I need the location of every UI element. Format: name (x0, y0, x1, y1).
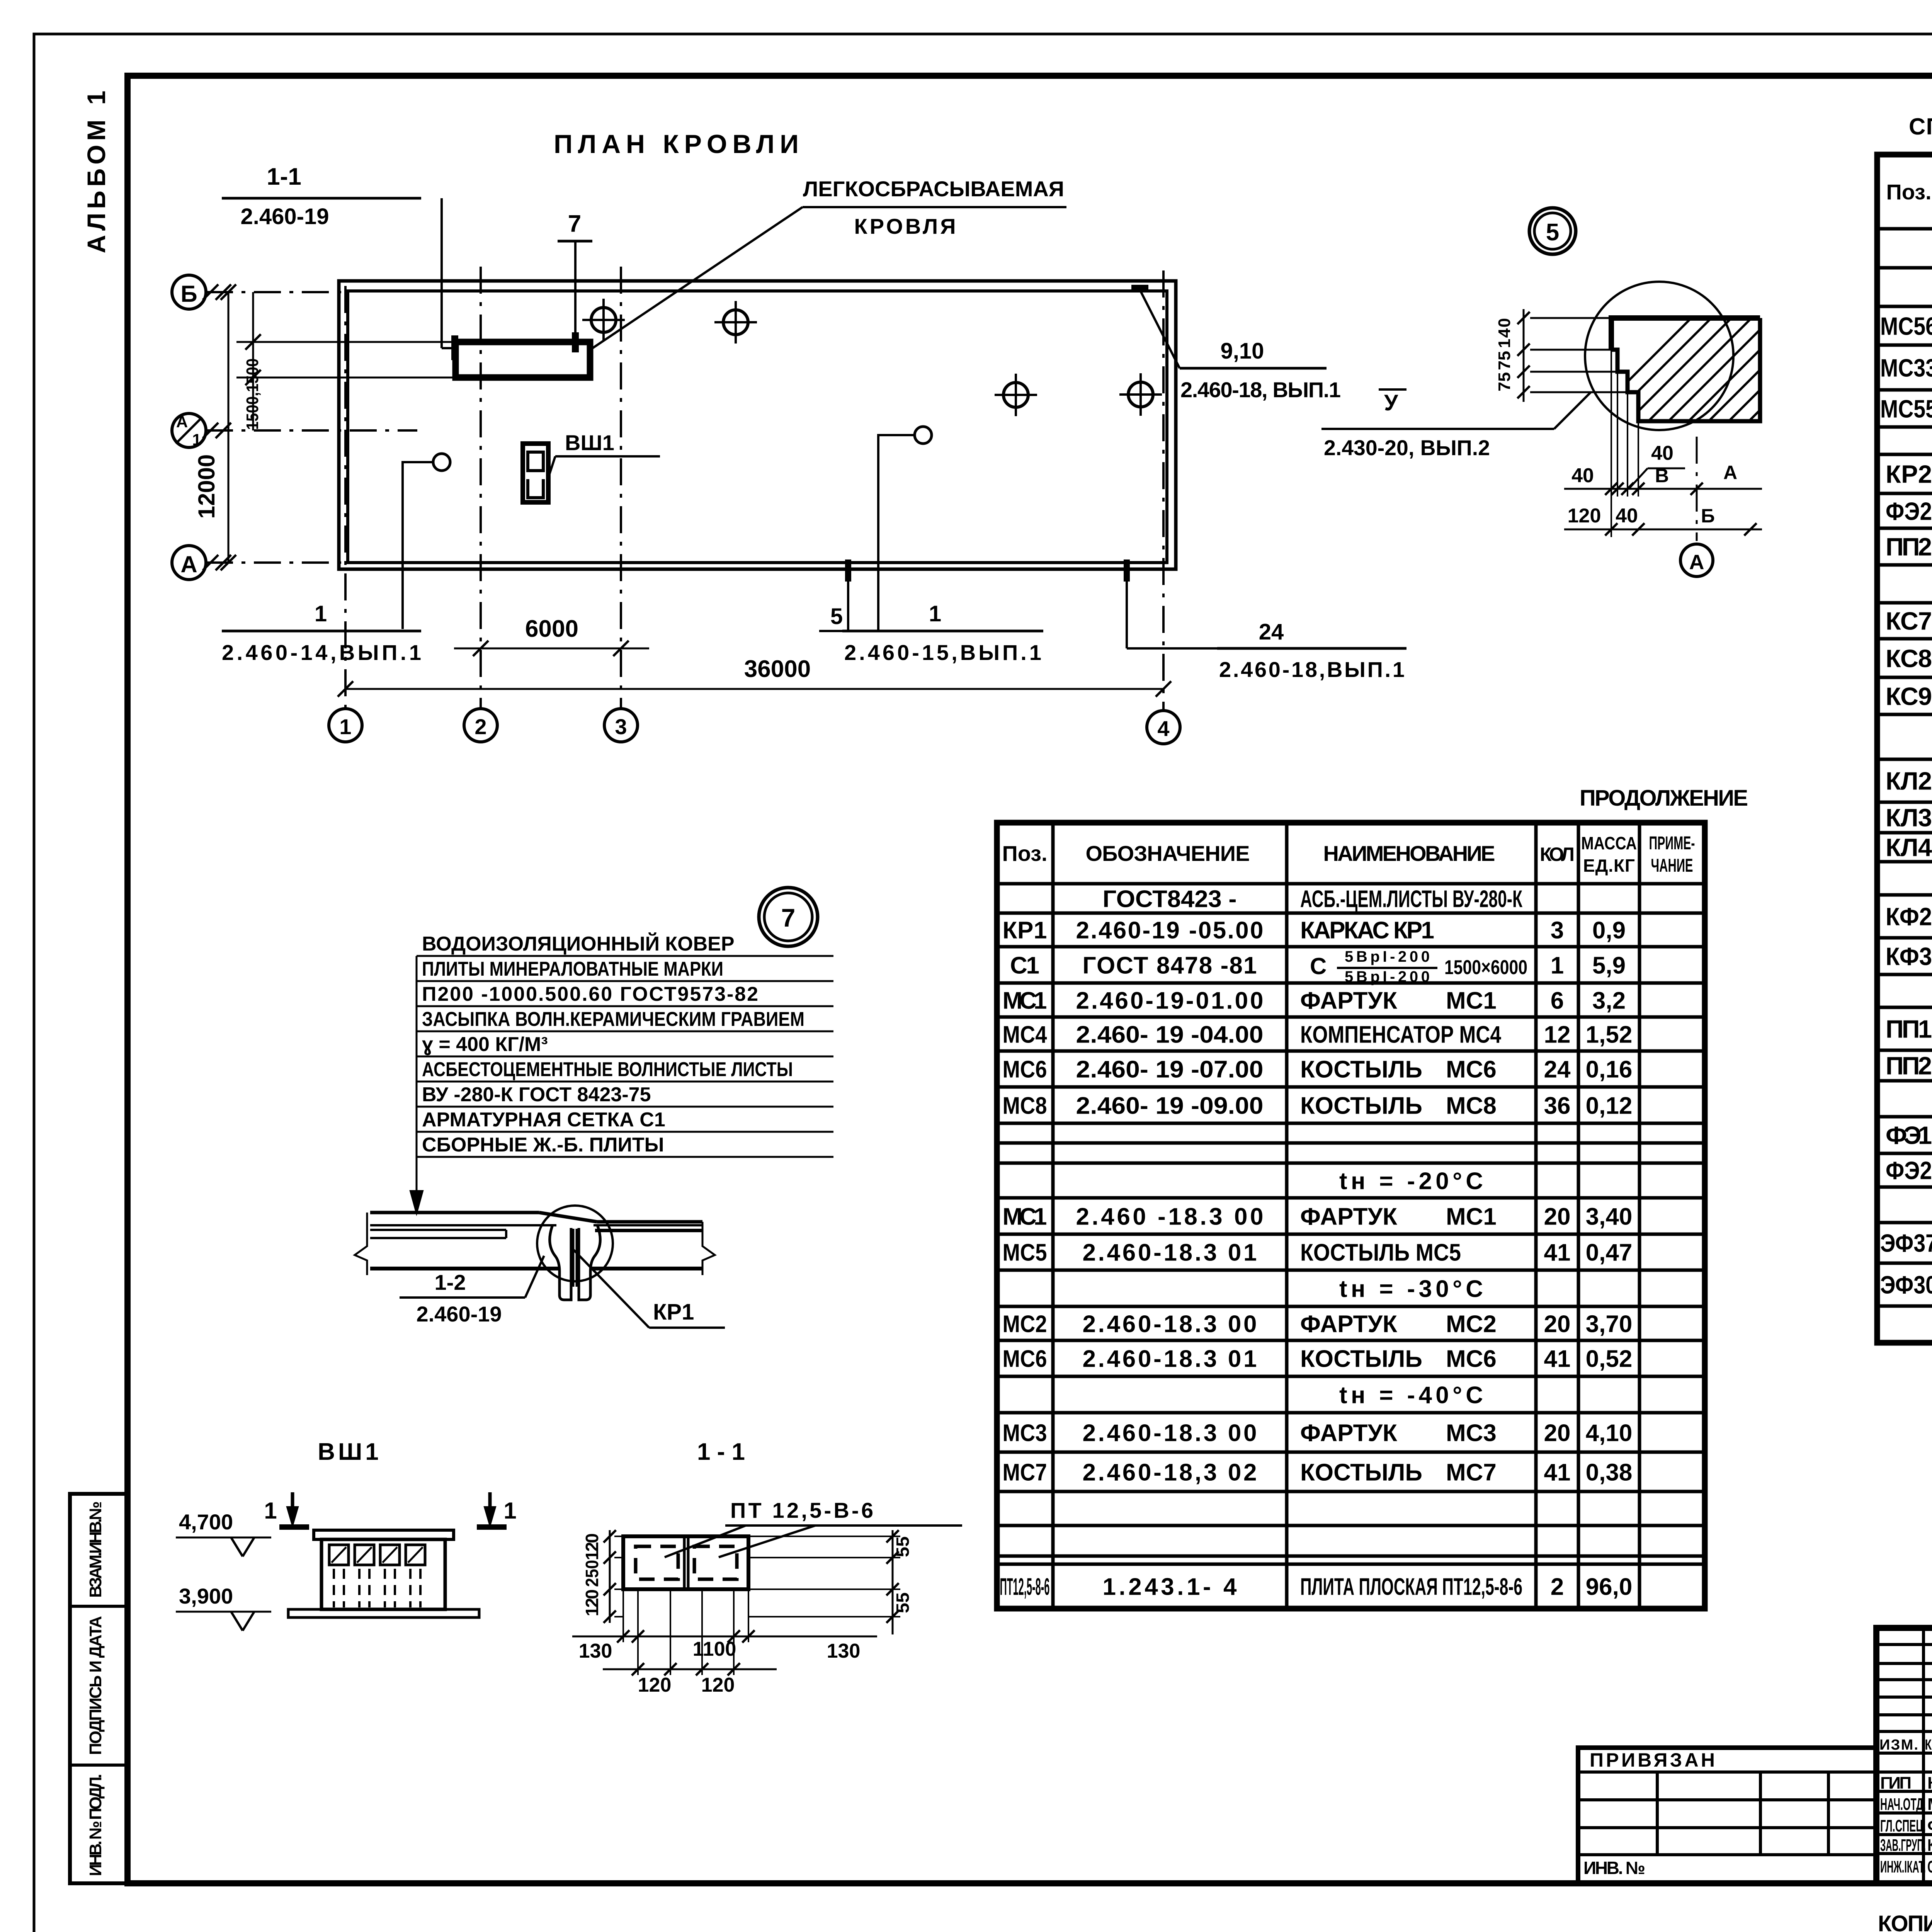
svg-text:9,10: 9,10 (1221, 338, 1264, 364)
svg-text:0,12: 0,12 (1586, 1092, 1633, 1119)
svg-text:3: 3 (615, 714, 627, 739)
svg-text:0,16: 0,16 (1586, 1056, 1633, 1083)
axis circle 1 (329, 709, 362, 742)
svg-text:МС1: МС1 (1003, 1203, 1047, 1230)
dim 36000 (345, 688, 1163, 690)
svg-text:250: 250 (582, 1560, 602, 1587)
vent circle c (1003, 383, 1028, 407)
svg-text:МС5: МС5 (1003, 1239, 1047, 1266)
svg-text:КОЛ.УЧ: КОЛ.УЧ (1925, 1737, 1932, 1753)
svg-text:ГЛ.СПЕЦ.: ГЛ.СПЕЦ. (1880, 1816, 1926, 1835)
axis line A (206, 561, 346, 564)
vent circle a (591, 308, 616, 332)
svg-text:ОБОЗНАЧЕНИЕ: ОБОЗНАЧЕНИЕ (1086, 841, 1254, 866)
axis line 3 vertical (620, 267, 622, 709)
svg-text:КЛ2: КЛ2 (1886, 767, 1932, 795)
svg-text:МС2: МС2 (1003, 1311, 1047, 1337)
svg-text:tн = -40°С: tн = -40°С (1339, 1382, 1483, 1408)
svg-text:2.460- 19 -04.00: 2.460- 19 -04.00 (1076, 1021, 1264, 1048)
1-1 middle joint (683, 1536, 686, 1589)
svg-text:130: 130 (827, 1640, 861, 1662)
axis circle B (172, 275, 206, 309)
svg-text:ИНВ. № ПОДЛ.: ИНВ. № ПОДЛ. (86, 1774, 105, 1876)
svg-text:120: 120 (638, 1674, 672, 1696)
svg-text:ФЭ2: ФЭ2 (1886, 497, 1932, 525)
detail 5 dims 75 75 140 (1523, 309, 1525, 402)
svg-text:20: 20 (1544, 1203, 1571, 1230)
1-1 left dims (609, 1530, 611, 1623)
svg-text:ГОСТ 8478 -81: ГОСТ 8478 -81 (1083, 952, 1257, 979)
svg-text:Б: Б (1701, 505, 1715, 527)
cut mark 5 (845, 560, 851, 582)
1-1 dashed plate left (636, 1546, 678, 1579)
svg-text:ЗАСЫПКА ВОЛН.КЕРАМИЧЕСКИМ ГРАВ: ЗАСЫПКА ВОЛН.КЕРАМИЧЕСКИМ ГРАВИЕМ (422, 1008, 804, 1031)
svg-text:КУЗНЕЦОВА: КУЗНЕЦОВА (1927, 1836, 1932, 1855)
svg-text:1100: 1100 (693, 1638, 736, 1660)
svg-text:МС6: МС6 (1003, 1345, 1047, 1372)
svg-text:40: 40 (1616, 505, 1638, 527)
VSh1 louvers (329, 1545, 349, 1565)
svg-text:3,2: 3,2 (1592, 987, 1626, 1014)
svg-text:2.460-18,ВЫП.1: 2.460-18,ВЫП.1 (1219, 657, 1405, 682)
svg-text:40: 40 (1651, 442, 1673, 464)
title block signature rows (1876, 1643, 1932, 1646)
svg-text:1 - 1: 1 - 1 (697, 1439, 745, 1465)
svg-text:24: 24 (1259, 619, 1284, 645)
leader circle 2 middle (878, 435, 915, 631)
svg-text:ФАРТУК: ФАРТУК (1300, 987, 1397, 1014)
svg-text:6: 6 (1551, 987, 1564, 1014)
svg-text:СТАРОДУБОВА: СТАРОДУБОВА (1927, 1857, 1932, 1876)
1-1 bottom dims (622, 1589, 624, 1642)
axis circle 4 (1147, 711, 1180, 744)
svg-text:1500,1500: 1500,1500 (243, 359, 262, 430)
svg-text:ВУ -280-К ГОСТ 8423-75: ВУ -280-К ГОСТ 8423-75 (422, 1083, 651, 1106)
svg-text:140: 140 (1495, 318, 1514, 348)
svg-text:ВОДОИЗОЛЯЦИОННЫЙ КОВЕР: ВОДОИЗОЛЯЦИОННЫЙ КОВЕР (422, 932, 735, 955)
svg-text:ɣ = 400 КГ/М³: ɣ = 400 КГ/М³ (422, 1033, 548, 1056)
detail 7 bubble circle (537, 1206, 613, 1281)
svg-text:24: 24 (1544, 1056, 1571, 1083)
svg-text:120: 120 (701, 1674, 735, 1696)
detail 7 bubble (759, 888, 818, 946)
svg-text:36000: 36000 (744, 656, 811, 682)
specification table grid (1877, 227, 1932, 231)
axis circle 2 (464, 709, 497, 742)
svg-text:40: 40 (1571, 464, 1594, 487)
svg-text:ФРОЛОВА: ФРОЛОВА (1927, 1816, 1932, 1835)
svg-text:МАССА: МАССА (1581, 833, 1637, 853)
axis circle A (172, 546, 206, 580)
detail 5 hatching (1577, 305, 1932, 433)
svg-text:КФ2: КФ2 (1886, 902, 1932, 930)
detail 7 slab bottom (370, 1267, 558, 1270)
svg-text:6000: 6000 (525, 616, 578, 642)
svg-text:1: 1 (1551, 952, 1564, 979)
svg-text:4,10: 4,10 (1586, 1420, 1633, 1446)
axis circle 3 (604, 709, 638, 742)
svg-text:0,38: 0,38 (1586, 1459, 1633, 1486)
svg-text:КОМПЕНСАТОР МС4: КОМПЕНСАТОР МС4 (1300, 1021, 1501, 1048)
svg-text:КИЩЕНКО: КИЩЕНКО (1927, 1774, 1932, 1793)
svg-text:1500×6000: 1500×6000 (1444, 956, 1527, 979)
left margin table (70, 1494, 128, 1883)
svg-text:ФАРТУК: ФАРТУК (1300, 1311, 1397, 1337)
svg-text:ГОСТ8423 -: ГОСТ8423 - (1103, 886, 1237, 912)
svg-text:С: С (1310, 953, 1327, 979)
svg-text:41: 41 (1544, 1345, 1571, 1372)
svg-text:КОСТЫЛЬ: КОСТЫЛЬ (1300, 1056, 1422, 1083)
svg-text:36: 36 (1544, 1092, 1571, 1119)
svg-text:2.460-19 -05.00: 2.460-19 -05.00 (1076, 917, 1264, 944)
svg-text:0,47: 0,47 (1586, 1239, 1633, 1266)
svg-text:С1: С1 (1010, 952, 1039, 979)
cut tick top right (1131, 285, 1148, 291)
blow-off roof bold rectangle (456, 342, 590, 378)
svg-text:ФЭ1: ФЭ1 (1886, 1121, 1932, 1149)
svg-text:75: 75 (1495, 372, 1514, 391)
svg-text:КР2: КР2 (1886, 460, 1932, 488)
svg-text:1,52: 1,52 (1586, 1021, 1633, 1048)
privyazan box (1578, 1748, 1876, 1883)
dim 12000 vertical (228, 292, 230, 563)
svg-text:1: 1 (929, 601, 941, 626)
svg-text:МС6: МС6 (1446, 1345, 1497, 1372)
axis line 1 vertical (344, 286, 347, 709)
svg-text:20: 20 (1544, 1420, 1571, 1446)
svg-text:12000: 12000 (194, 454, 219, 519)
svg-text:МС55: МС55 (1880, 395, 1932, 423)
1-1 dashed plate right (694, 1546, 737, 1579)
svg-text:75: 75 (1495, 351, 1514, 370)
svg-text:2.460-19: 2.460-19 (416, 1302, 502, 1326)
svg-text:2.460-18.3 00: 2.460-18.3 00 (1083, 1420, 1257, 1446)
svg-text:tн = -20°С: tн = -20°С (1339, 1168, 1483, 1194)
svg-text:КОСТЫЛЬ: КОСТЫЛЬ (1300, 1345, 1422, 1372)
svg-text:МС8: МС8 (1003, 1092, 1047, 1119)
svg-text:МАРТЫНОВ: МАРТЫНОВ (1927, 1795, 1932, 1814)
svg-text:2.460 -18.3 00: 2.460 -18.3 00 (1076, 1203, 1264, 1230)
label 9,10 / 2.460-18 (1140, 290, 1180, 368)
VSh1 hut roof (314, 1530, 454, 1539)
VSh1 hut body (321, 1539, 445, 1609)
svg-text:НАИМЕНОВАНИЕ: НАИМЕНОВАНИЕ (1323, 841, 1499, 866)
svg-text:ГИП: ГИП (1880, 1774, 1912, 1793)
svg-text:МС33: МС33 (1880, 354, 1932, 382)
svg-text:120: 120 (582, 1533, 602, 1560)
leader to blow-off area (590, 207, 803, 350)
axis line B (206, 291, 346, 293)
svg-text:ВЗАМ.ИНВ.№: ВЗАМ.ИНВ.№ (86, 1501, 105, 1598)
svg-text:КС7: КС7 (1886, 607, 1932, 635)
svg-text:2: 2 (474, 714, 486, 739)
svg-text:АСБ.-ЦЕМ.ЛИСТЫ ВУ-280-К: АСБ.-ЦЕМ.ЛИСТЫ ВУ-280-К (1300, 886, 1522, 912)
svg-text:МС6: МС6 (1003, 1056, 1047, 1083)
svg-text:МС1: МС1 (1446, 1203, 1497, 1230)
label 24 / 2.460-18 (1126, 582, 1128, 648)
svg-text:120: 120 (582, 1589, 602, 1616)
svg-text:МС1: МС1 (1003, 987, 1047, 1014)
svg-text:tн = -30°С: tн = -30°С (1339, 1276, 1483, 1302)
svg-text:ИНВ. №: ИНВ. № (1583, 1858, 1645, 1878)
svg-text:ПП1: ПП1 (1886, 1015, 1932, 1043)
svg-text:ИНЖ.IКАТ.: ИНЖ.IКАТ. (1880, 1857, 1926, 1876)
dim 6000 (454, 648, 649, 650)
svg-text:3,70: 3,70 (1586, 1311, 1633, 1337)
svg-text:1: 1 (339, 714, 351, 739)
svg-text:ЕД.КГ: ЕД.КГ (1583, 855, 1635, 876)
svg-text:7: 7 (568, 211, 581, 237)
svg-text:2.460-18.3 01: 2.460-18.3 01 (1083, 1239, 1257, 1266)
svg-text:КР1: КР1 (653, 1299, 694, 1325)
detail 5 section block (1611, 318, 1760, 350)
svg-text:55: 55 (893, 1536, 913, 1557)
svg-text:4: 4 (1157, 716, 1169, 741)
svg-text:МС3: МС3 (1446, 1420, 1497, 1446)
axis circle A detail5 (1680, 544, 1713, 577)
svg-text:ЛЕГКОСБРАСЫВАЕМАЯ: ЛЕГКОСБРАСЫВАЕМАЯ (803, 177, 1066, 201)
svg-text:2.460-18, ВЫП.1: 2.460-18, ВЫП.1 (1180, 378, 1341, 402)
svg-text:АРМАТУРНАЯ СЕТКА С1: АРМАТУРНАЯ СЕТКА С1 (422, 1109, 665, 1131)
svg-text:5: 5 (1546, 219, 1559, 246)
svg-text:ПРИВЯЗАН: ПРИВЯЗАН (1590, 1749, 1717, 1771)
detail 5 bubble circle (1585, 282, 1733, 430)
svg-text:5: 5 (830, 604, 843, 629)
axis line 4 vertical (1162, 270, 1165, 710)
svg-text:2.460-14,ВЫП.1: 2.460-14,ВЫП.1 (222, 640, 421, 665)
svg-text:П200 -1000.500.60 ГОСТ9573-82: П200 -1000.500.60 ГОСТ9573-82 (422, 983, 758, 1005)
svg-text:КОСТЫЛЬ: КОСТЫЛЬ (1300, 1092, 1422, 1119)
title block outer (1876, 1628, 1932, 1883)
svg-text:ПП2: ПП2 (1886, 532, 1932, 561)
svg-text:ПЛАН КРОВЛИ: ПЛАН КРОВЛИ (554, 129, 809, 159)
vent circle d (1128, 382, 1153, 407)
svg-text:ПТ 12,5-В-6: ПТ 12,5-В-6 (730, 1498, 873, 1522)
svg-text:1: 1 (264, 1498, 277, 1524)
detail 7 roof section (370, 1211, 539, 1214)
leader circle 1 left (403, 462, 433, 629)
svg-text:АЛЬБОМ 1: АЛЬБОМ 1 (82, 87, 111, 253)
svg-text:ЧАНИЕ: ЧАНИЕ (1651, 855, 1693, 876)
svg-text:КОЛ: КОЛ (1540, 844, 1575, 865)
axis line A1 (206, 429, 417, 432)
detail 7 break marks (355, 1213, 367, 1275)
svg-text:ЭФ37: ЭФ37 (1880, 1229, 1932, 1257)
axis line 2 vertical (480, 267, 482, 709)
roof outline outer (339, 281, 1176, 569)
svg-text:1.243.1- 4: 1.243.1- 4 (1103, 1573, 1237, 1600)
svg-text:А: А (1689, 551, 1704, 574)
svg-text:3,900: 3,900 (179, 1584, 233, 1608)
svg-text:ПП2: ПП2 (1886, 1051, 1932, 1080)
roof outline inner (348, 291, 1167, 563)
svg-text:2.460-19: 2.460-19 (241, 204, 329, 229)
title block signature columns (1922, 1628, 1925, 1883)
svg-text:ПТ12,5-8-6: ПТ12,5-8-6 (1000, 1573, 1050, 1600)
svg-text:МС1: МС1 (1446, 987, 1497, 1014)
svg-text:МС7: МС7 (1003, 1459, 1047, 1486)
svg-text:Поз.: Поз. (1002, 841, 1047, 866)
svg-text:1: 1 (503, 1498, 516, 1524)
detail 5 bubble (1529, 208, 1576, 254)
svg-text:96,0: 96,0 (1586, 1573, 1633, 1600)
svg-text:0,9: 0,9 (1592, 917, 1626, 944)
svg-text:ФАРТУК: ФАРТУК (1300, 1420, 1397, 1446)
dim line 40 B A (1564, 488, 1762, 490)
svg-text:2.460-15,ВЫП.1: 2.460-15,ВЫП.1 (844, 640, 1041, 665)
svg-text:2.460- 19 -07.00: 2.460- 19 -07.00 (1076, 1056, 1264, 1083)
svg-text:120: 120 (1568, 505, 1601, 527)
svg-text:КРОВЛЯ: КРОВЛЯ (854, 214, 958, 238)
detail 5 lower dims (1611, 350, 1612, 537)
svg-text:1: 1 (192, 430, 201, 449)
svg-text:СБОРНЫЕ Ж.-Б. ПЛИТЫ: СБОРНЫЕ Ж.-Б. ПЛИТЫ (422, 1134, 664, 1156)
svg-text:130: 130 (579, 1640, 612, 1662)
svg-text:ВШ1: ВШ1 (565, 430, 614, 455)
svg-text:20: 20 (1544, 1311, 1571, 1337)
svg-text:2.460- 19 -09.00: 2.460- 19 -09.00 (1076, 1092, 1264, 1119)
svg-text:МС2: МС2 (1446, 1311, 1497, 1337)
svg-text:2.460-18.3 01: 2.460-18.3 01 (1083, 1345, 1257, 1372)
vent circle b (723, 310, 748, 335)
svg-text:ФЭ2: ФЭ2 (1886, 1156, 1932, 1184)
svg-text:41: 41 (1544, 1239, 1571, 1266)
svg-text:0,52: 0,52 (1586, 1345, 1633, 1372)
cut mark 24 tick (1124, 560, 1130, 582)
axis dashdot A detail5 (1696, 437, 1698, 541)
svg-text:41: 41 (1544, 1459, 1571, 1486)
svg-text:1: 1 (315, 601, 327, 626)
dim line 120 40 B (1564, 529, 1762, 531)
svg-text:МС8: МС8 (1446, 1092, 1497, 1119)
svg-text:КФ3: КФ3 (1886, 942, 1932, 970)
axis circle A/1 (172, 413, 206, 447)
svg-text:А: А (176, 413, 188, 431)
svg-text:ФАРТУК: ФАРТУК (1300, 1203, 1397, 1230)
svg-text:2.460-18.3 00: 2.460-18.3 00 (1083, 1311, 1257, 1337)
svg-text:У: У (1384, 390, 1398, 415)
svg-text:2.460-18,3 02: 2.460-18,3 02 (1083, 1459, 1257, 1486)
svg-text:КОСТЫЛЬ: КОСТЫЛЬ (1300, 1459, 1422, 1486)
svg-text:СПЕЦИФИКАЦИЯ К ПЛАНУ КРОВЛИ: СПЕЦИФИКАЦИЯ К ПЛАНУ КРОВЛИ (1909, 114, 1932, 139)
1-1 slab outer (623, 1536, 748, 1589)
svg-text:ИЗМ.: ИЗМ. (1879, 1737, 1918, 1753)
svg-text:КС8: КС8 (1886, 644, 1932, 672)
svg-text:7: 7 (781, 903, 796, 932)
svg-text:1-2: 1-2 (435, 1270, 466, 1294)
svg-text:МС4: МС4 (1003, 1021, 1047, 1048)
detail 7 KR1 clamp (550, 1225, 571, 1300)
svg-text:5,9: 5,9 (1592, 952, 1626, 979)
svg-text:А: А (180, 551, 197, 577)
svg-text:АСБЕСТОЦЕМЕНТНЫЕ ВОЛНИСТЫЕ ЛИС: АСБЕСТОЦЕМЕНТНЫЕ ВОЛНИСТЫЕ ЛИСТЫ (422, 1058, 793, 1081)
svg-text:12: 12 (1544, 1021, 1571, 1048)
VSh1 base (288, 1609, 479, 1617)
svg-text:НАЧ.ОТД.: НАЧ.ОТД. (1880, 1795, 1926, 1814)
svg-text:МС7: МС7 (1446, 1459, 1497, 1486)
svg-text:КАРКАС КР1: КАРКАС КР1 (1300, 917, 1434, 944)
svg-text:ПЛИТЫ МИНЕРАЛОВАТНЫЕ МАРКИ: ПЛИТЫ МИНЕРАЛОВАТНЫЕ МАРКИ (422, 958, 723, 980)
svg-text:3,40: 3,40 (1586, 1203, 1633, 1230)
svg-text:ПРОДОЛЖЕНИЕ: ПРОДОЛЖЕНИЕ (1580, 786, 1750, 811)
svg-text:ВШ1: ВШ1 (318, 1439, 382, 1465)
svg-text:1-1: 1-1 (267, 163, 301, 190)
svg-text:МС3: МС3 (1003, 1420, 1047, 1446)
svg-text:МС56: МС56 (1880, 312, 1932, 340)
dim 1500 1500 vertical (252, 292, 254, 430)
svg-text:КС9: КС9 (1886, 682, 1932, 710)
svg-text:МС6: МС6 (1446, 1056, 1497, 1083)
svg-text:Поз.: Поз. (1886, 180, 1931, 204)
svg-text:2.430-20, ВЫП.2: 2.430-20, ВЫП.2 (1324, 435, 1490, 460)
extension lines 1500 (236, 341, 456, 343)
svg-text:ПЛИТА ПЛОСКАЯ ПТ12,5-8-6: ПЛИТА ПЛОСКАЯ ПТ12,5-8-6 (1300, 1573, 1522, 1600)
svg-text:ЗАВ.ГРУП.: ЗАВ.ГРУП. (1880, 1836, 1926, 1855)
svg-text:ЭФ30: ЭФ30 (1880, 1270, 1932, 1299)
svg-text:55: 55 (893, 1592, 913, 1613)
svg-text:КЛ4: КЛ4 (1886, 833, 1932, 861)
detail 7 arrow (416, 956, 418, 1209)
continuation table grid (997, 882, 1705, 886)
svg-text:ПОДПИСЬ И ДАТА: ПОДПИСЬ И ДАТА (86, 1616, 105, 1755)
svg-text:3: 3 (1551, 917, 1564, 944)
1-1 right dims (892, 1530, 894, 1634)
svg-text:4,700: 4,700 (179, 1510, 233, 1534)
svg-text:А: А (1723, 462, 1737, 483)
svg-text:2: 2 (1551, 1573, 1564, 1600)
shaft symbol VSh1 (523, 444, 548, 502)
svg-text:КЛ3: КЛ3 (1886, 803, 1932, 832)
svg-text:КОСТЫЛЬ МС5: КОСТЫЛЬ МС5 (1300, 1239, 1461, 1266)
svg-text:КОПИРОВАЛ ЗАВЬЯЛОВА: КОПИРОВАЛ ЗАВЬЯЛОВА (1878, 1911, 1932, 1932)
svg-text:ПРИМЕ-: ПРИМЕ- (1649, 833, 1695, 854)
svg-text:КР1: КР1 (1003, 917, 1047, 944)
svg-text:Б: Б (180, 281, 197, 307)
